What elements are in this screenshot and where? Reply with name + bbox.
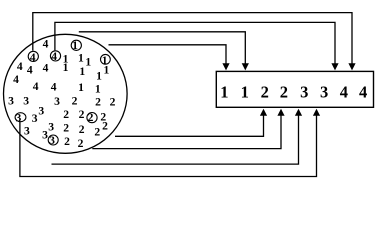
circle around selected 2 [87, 113, 97, 123]
group of scattered 3s (bottom-left) [8, 95, 60, 148]
svg-text:1: 1 [95, 83, 101, 96]
sorted digits 1 1 2 2 3 3 4 4 [220, 82, 367, 101]
svg-text:2: 2 [63, 108, 69, 121]
svg-text:1: 1 [220, 82, 228, 101]
arrowhead C (down into box top) [242, 63, 249, 70]
svg-text:3: 3 [23, 95, 29, 108]
svg-text:2: 2 [79, 108, 85, 121]
circle around first selected 1 [71, 40, 81, 50]
svg-text:3: 3 [42, 129, 48, 142]
wire H: from circled 3 #1 down and around into second 3 cell [20, 115, 317, 177]
circle around second selected 4 [50, 51, 60, 61]
svg-text:3: 3 [8, 95, 14, 108]
svg-text:1: 1 [78, 52, 84, 65]
svg-text:4: 4 [27, 64, 33, 77]
group of scattered 4s (top-left) [13, 38, 57, 94]
svg-text:3: 3 [32, 112, 38, 125]
group of scattered 2s (bottom-right) [63, 95, 115, 150]
svg-text:1: 1 [63, 61, 69, 74]
svg-text:2: 2 [63, 122, 69, 135]
circle around first selected 4 [28, 51, 38, 61]
arrowhead B (down into box top) [331, 63, 338, 70]
svg-text:2: 2 [95, 96, 101, 109]
svg-text:1: 1 [79, 65, 85, 78]
svg-text:2: 2 [280, 82, 288, 101]
svg-text:2: 2 [78, 137, 84, 150]
svg-text:2: 2 [261, 82, 269, 101]
wire F: bottom line into second 2 cell [92, 115, 281, 149]
svg-text:2: 2 [110, 96, 116, 109]
circle around second selected 3 [48, 135, 58, 145]
circle around second selected 1 [101, 54, 111, 64]
svg-text:4: 4 [13, 73, 19, 86]
svg-text:4: 4 [43, 38, 49, 51]
svg-text:1: 1 [241, 82, 249, 101]
svg-text:1: 1 [104, 63, 110, 76]
arrowhead G (up into box bottom) [295, 109, 302, 116]
svg-text:2: 2 [72, 95, 78, 108]
circle around first selected 3 [15, 113, 26, 122]
svg-text:4: 4 [33, 80, 39, 93]
wire A: from circled 4 #1 over the top to rightmost cell [33, 13, 352, 65]
svg-text:3: 3 [24, 125, 30, 138]
svg-text:4: 4 [17, 60, 23, 73]
svg-text:2: 2 [94, 126, 100, 139]
svg-text:3: 3 [320, 82, 328, 101]
svg-text:2: 2 [102, 119, 108, 132]
svg-text:2: 2 [79, 123, 85, 136]
svg-text:1: 1 [85, 56, 91, 69]
svg-text:2: 2 [64, 135, 70, 148]
svg-text:1: 1 [78, 81, 84, 94]
svg-text:3: 3 [38, 105, 44, 118]
wire B: from circled 4 #2 over the top [55, 22, 335, 65]
arrowhead H (up into box bottom) [313, 109, 320, 116]
svg-text:1: 1 [96, 69, 102, 82]
svg-text:4: 4 [359, 82, 367, 101]
group of scattered 1s (top-right) [63, 39, 110, 95]
arrowhead E (up into box bottom) [260, 109, 267, 116]
svg-text:3: 3 [54, 95, 60, 108]
wire C: from circled 1 #1 to first cell area [79, 32, 246, 65]
arrowhead D (down into box top) [222, 63, 229, 70]
svg-text:4: 4 [340, 82, 348, 101]
svg-text:4: 4 [51, 80, 57, 93]
svg-text:3: 3 [300, 82, 308, 101]
wire E: bottom line into first 2 cell [115, 115, 264, 137]
output rectangle (sorted array box) [216, 71, 373, 107]
arrowhead F (up into box bottom) [277, 109, 284, 116]
bag circle (ellipse containing scattered numbers) [4, 34, 128, 153]
svg-text:4: 4 [43, 61, 49, 74]
wire D: from circled 1 #2 to first cell [109, 45, 227, 65]
svg-text:3: 3 [48, 120, 54, 133]
wire G: from below circled 3 #2 into first 3 cell [52, 115, 299, 165]
arrowhead A (down into box top) [348, 63, 355, 70]
